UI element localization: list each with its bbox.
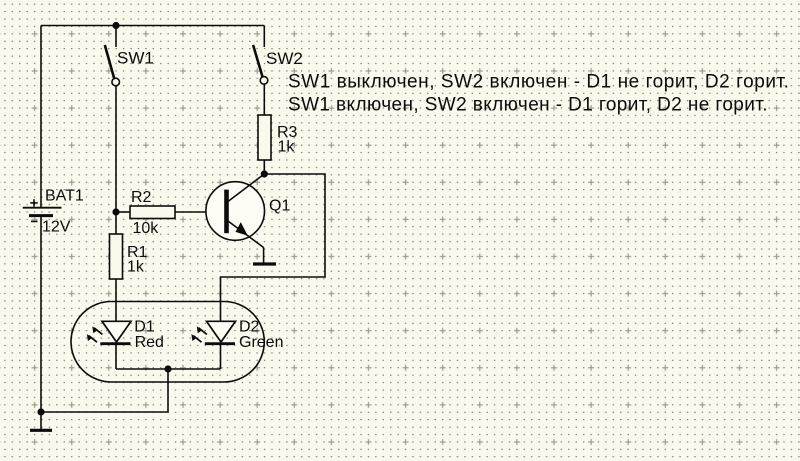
LED D2 (191, 319, 283, 351)
resistor R2 (130, 189, 175, 237)
LED D1 (87, 319, 164, 351)
svg-text:1k: 1k (127, 259, 145, 276)
wire SW1 branch down to base node (115, 26, 117, 48)
resistor R3 (258, 115, 298, 160)
wire left rail (40, 26, 42, 208)
svg-text:12V: 12V (42, 219, 71, 236)
node junction top bus / SW1 (112, 22, 119, 29)
ground under Q1 emitter (253, 262, 276, 265)
wire R2 leads (116, 211, 130, 213)
wire SW2 branch (263, 26, 265, 48)
svg-text:R2: R2 (131, 189, 152, 206)
ground bottom left (30, 412, 52, 430)
node ground junction bottom left (37, 408, 44, 415)
node collector junction (261, 170, 268, 177)
wire R3 to collector node (263, 160, 265, 174)
wire return to ground (41, 369, 168, 412)
wire collector loop to D2 (221, 174, 326, 321)
wire D2 cathode down (220, 343, 222, 369)
svg-text:SW1 включен, SW2 включен - D1: SW1 включен, SW2 включен - D1 горит, D2 … (288, 95, 768, 116)
svg-text:BAT1: BAT1 (45, 188, 84, 205)
node LED cathode junction (164, 365, 171, 372)
svg-text:Green: Green (239, 334, 283, 351)
switch SW1 (105, 45, 154, 86)
wire R1 leads (115, 212, 117, 234)
node base divider junction (112, 208, 119, 215)
svg-text:Q1: Q1 (269, 198, 290, 215)
svg-text:Red: Red (135, 334, 164, 351)
wire D1 cathode down (115, 343, 117, 369)
svg-text:1k: 1k (278, 139, 296, 156)
resistor R1 (110, 234, 148, 279)
wire cathode bus (116, 368, 220, 370)
switch SW2 (253, 45, 303, 84)
svg-text:10k: 10k (133, 220, 160, 237)
battery BAT1 (23, 188, 84, 236)
wire top bus (41, 25, 264, 27)
transistor Q1 (206, 174, 291, 263)
LED module outline (capsule) (71, 302, 264, 383)
svg-text:SW1: SW1 (117, 49, 154, 68)
svg-text:SW2: SW2 (266, 49, 303, 68)
svg-text:SW1 выключен, SW2 включен - D1: SW1 выключен, SW2 включен - D1 не горит,… (288, 72, 790, 93)
